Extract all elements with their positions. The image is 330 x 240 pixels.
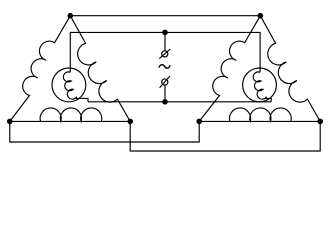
wire rotor bottom bus <box>88 101 271 103</box>
rotor winding left <box>63 72 88 102</box>
terminal circle top <box>162 51 168 57</box>
terminal slash bottom <box>160 76 170 88</box>
junction dot source top <box>162 30 168 36</box>
junction dot right bottom-right <box>317 119 323 125</box>
junction dot right bottom-left <box>196 119 202 125</box>
wire source top lead <box>164 32 166 50</box>
stator winding left triangle left side <box>10 16 70 122</box>
terminal slash top <box>159 49 170 59</box>
wire bottom interconnect B <box>130 121 320 151</box>
rotor circle left <box>52 68 86 102</box>
junction dot source bottom <box>162 99 168 105</box>
stator winding right triangle bottom humps <box>230 108 292 121</box>
stator winding right triangle left side <box>199 16 260 122</box>
junction dot left apex <box>67 13 73 19</box>
junction dot right apex <box>258 13 264 19</box>
stator winding right triangle right side <box>260 16 320 122</box>
rotor winding right <box>253 72 271 102</box>
stator winding left triangle bottom baseline <box>10 120 130 122</box>
wire top bus <box>70 15 260 17</box>
AC source tilde <box>159 65 170 68</box>
wire source bottom lead <box>164 85 166 102</box>
wire bottom interconnect A <box>10 121 199 142</box>
terminal circle bottom <box>162 79 168 85</box>
stator winding right triangle bottom baseline <box>199 120 320 122</box>
junction dot left bottom-right <box>127 119 133 125</box>
stator winding left triangle bottom humps <box>40 108 102 121</box>
stator winding left triangle right side <box>70 16 130 122</box>
junction dot left bottom-left <box>7 119 13 125</box>
wire rotor top bus with leads <box>70 32 260 72</box>
rotor circle right <box>243 68 277 102</box>
